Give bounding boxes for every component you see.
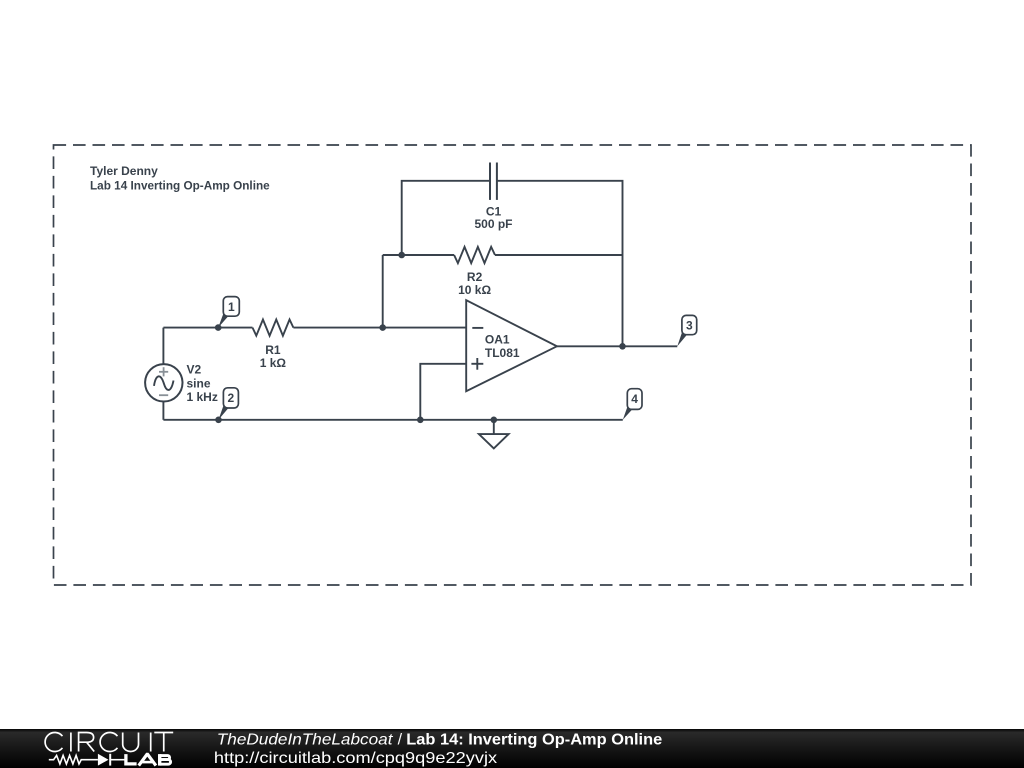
svg-text:sine: sine [187, 376, 211, 390]
svg-text:R2: R2 [467, 270, 483, 284]
svg-text:4: 4 [631, 392, 638, 406]
label R2 value [458, 270, 491, 297]
wire: R2 row left segment [383, 254, 454, 256]
voltage source V2 [145, 364, 182, 401]
wire: R1 to op-amp inverting input [293, 327, 466, 329]
label R1 value [260, 343, 287, 370]
svg-text:1 kHz: 1 kHz [187, 390, 218, 404]
wire: C1 right to right vertical [497, 181, 623, 346]
svg-text:OA1: OA1 [485, 333, 510, 347]
capacitor C1 [490, 163, 497, 200]
junction: non-inverting rail node [417, 417, 424, 424]
svg-text:500 pF: 500 pF [474, 217, 512, 231]
annotation: Tyler Denny / Lab 14 Inverting Op-Amp Online [90, 164, 270, 192]
wire: V2 bottom lead [162, 401, 164, 420]
svg-text:Lab 14: Inverting Op-Amp Onlin: Lab 14: Inverting Op-Amp Online [406, 731, 662, 748]
wire: bottom rail [163, 419, 622, 421]
svg-text:1: 1 [228, 300, 235, 314]
wire: non-inverting input from ground rail [420, 364, 466, 420]
svg-text:TheDudeInTheLabcoat: TheDudeInTheLabcoat [217, 731, 393, 748]
wire: input row to R1 [163, 327, 252, 329]
svg-text:1 kΩ: 1 kΩ [260, 356, 287, 370]
junction: feedback/C1 node [398, 252, 405, 259]
svg-text:Lab 14 Inverting Op-Amp Online: Lab 14 Inverting Op-Amp Online [90, 178, 270, 192]
node flag 4 [623, 389, 642, 420]
svg-text:http://circuitlab.com/cpq9q9e2: http://circuitlab.com/cpq9q9e22yvjx [214, 750, 497, 767]
svg-text:TL081: TL081 [485, 346, 520, 360]
svg-text:/: / [398, 731, 403, 748]
junction: output node [619, 343, 626, 350]
op-amp OA1 [466, 300, 557, 391]
node flag 2 [215, 388, 238, 423]
junction: inverting input node [379, 324, 386, 331]
logo resistor-diode [49, 754, 125, 766]
svg-text:R1: R1 [265, 343, 281, 357]
logo CIRCUIT wordmark [45, 733, 173, 752]
wire: ground stem [493, 420, 495, 434]
wire: C1 left loop [402, 181, 490, 255]
wire: op-amp output row [557, 345, 677, 347]
svg-text:V2: V2 [187, 363, 202, 377]
label OA1 value [485, 333, 520, 361]
ground [479, 434, 509, 448]
label C1 value [474, 204, 512, 231]
junction: ground rail node [491, 417, 498, 424]
svg-text:2: 2 [228, 391, 235, 405]
svg-text:3: 3 [686, 318, 693, 332]
wire: feedback drop from R2 row to input row [382, 255, 384, 328]
footer bar [0, 729, 1024, 768]
node flag 1 [215, 297, 239, 331]
logo LAB wordmark [126, 754, 171, 766]
label V2 value [187, 363, 218, 404]
node flag 3 [677, 315, 696, 346]
svg-text:10 kΩ: 10 kΩ [458, 283, 491, 297]
resistor R2 [454, 247, 495, 263]
footer: author / title [214, 731, 662, 766]
wire: R2 row right segment [495, 254, 623, 256]
wire: V2 top lead to input row [162, 328, 164, 365]
svg-text:Tyler Denny: Tyler Denny [90, 164, 158, 178]
resistor R1 [253, 320, 294, 336]
